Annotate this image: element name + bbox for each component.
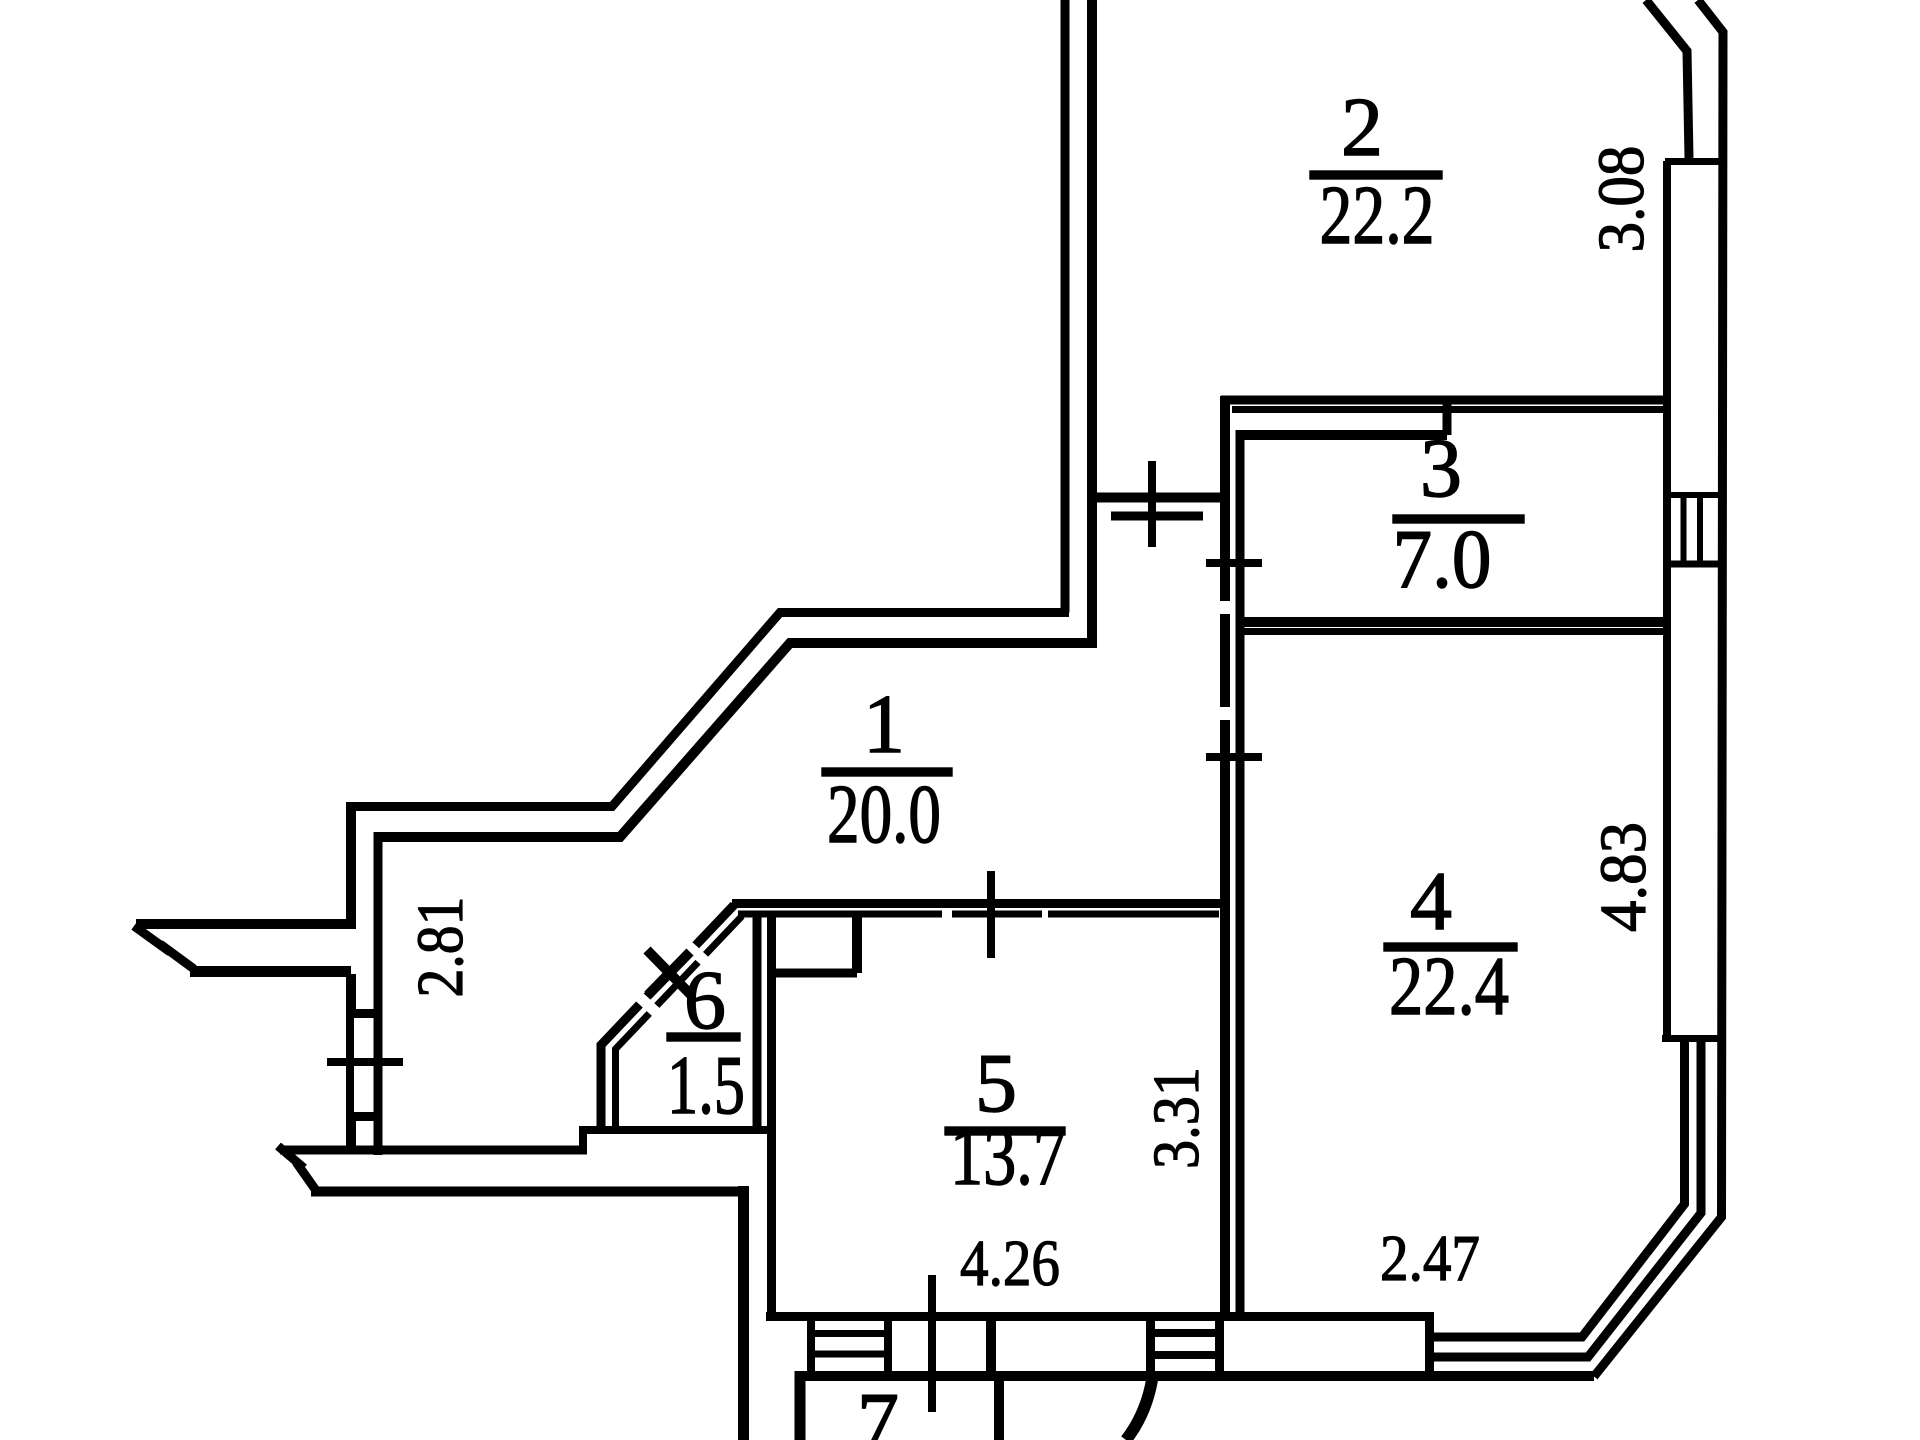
wall: room1/room5 dividing wall bottom line bbox=[738, 911, 1219, 918]
window: bay east glass line bbox=[1663, 161, 1671, 1038]
wall: stub wall top line with break bbox=[136, 919, 351, 929]
wall: left wall outer line between stub and window bbox=[346, 974, 356, 1013]
wall: room3 top wall step vertical bbox=[1443, 404, 1452, 435]
wall: room5 west outer line bbox=[738, 1186, 749, 1440]
wall: bottom band step vertical at east end bbox=[1425, 1312, 1434, 1381]
window: bottom ladder 2 east line bbox=[1215, 1317, 1224, 1377]
wall: room7 west wall bbox=[795, 1371, 806, 1440]
wall: room6 west wall and diagonal inner line bbox=[616, 916, 743, 1126]
wall: bay lower pier west line then diagonal to south wall glass line 1 bbox=[1434, 1038, 1685, 1337]
svg-text:2.81: 2.81 bbox=[404, 897, 477, 998]
wall: rooms divider east line bbox=[1236, 430, 1245, 1317]
window: left window bottom sill bbox=[346, 1112, 382, 1121]
small gap in room1/room5 wall bottom line left bbox=[942, 909, 952, 919]
window: bottom ladder 1 rung 1 bbox=[808, 1330, 891, 1337]
label room 5 fraction bar bbox=[945, 1127, 1065, 1135]
window: bottom ladder 1 west line bbox=[807, 1317, 815, 1377]
wall: corridor top wall lower line bbox=[1111, 512, 1203, 521]
label room 6 fraction bar bbox=[667, 1033, 740, 1041]
break mark on stub wall bbox=[134, 926, 194, 969]
wall: room2 bottom wall upper line bbox=[1221, 396, 1667, 405]
wall: left wall outer line lower segment bbox=[346, 1121, 356, 1150]
wall: bottom band bottom line bbox=[795, 1371, 1594, 1381]
svg-text:22.4: 22.4 bbox=[1389, 940, 1509, 1033]
glazing dash slit 2 on room6 diagonal bbox=[634, 992, 658, 1014]
wall: left wall inner line bbox=[374, 832, 383, 1155]
svg-text:2: 2 bbox=[1341, 81, 1383, 174]
door arc in room 7 bbox=[1126, 1380, 1152, 1440]
svg-text:3: 3 bbox=[1420, 422, 1462, 515]
wall: rooms divider west line bbox=[1220, 396, 1230, 1317]
window: bottom ladder 1 east line bbox=[884, 1317, 892, 1377]
svg-text:7: 7 bbox=[857, 1376, 899, 1440]
wall: bay top diagonal inner line bbox=[1646, 0, 1689, 158]
svg-text:13.7: 13.7 bbox=[950, 1110, 1066, 1203]
wall: bottom band door jamb bbox=[986, 1312, 996, 1381]
label room 4 fraction bar bbox=[1384, 943, 1517, 951]
window: bay top sill bbox=[1665, 158, 1722, 165]
svg-text:4.26: 4.26 bbox=[960, 1227, 1060, 1300]
window: bottom ladder 2 rung 1 bbox=[1150, 1329, 1220, 1337]
window: left window glass line bbox=[346, 1018, 354, 1112]
window: bay bottom sill bbox=[1662, 1035, 1720, 1042]
wall: room2 west wall inner line bbox=[1087, 0, 1097, 643]
dimension tick on left window bbox=[327, 1058, 403, 1066]
wall: room5 west inner line bbox=[767, 914, 776, 1317]
wall: corridor north and west boundary outer line bbox=[351, 613, 1069, 807]
window: bottom ladder 1 rung 2 bbox=[808, 1351, 891, 1358]
wall: corridor north and west boundary inner line bbox=[378, 643, 1097, 837]
window: left window top sill bbox=[346, 1009, 382, 1018]
label room 2 fraction bar bbox=[1310, 171, 1442, 179]
wall: room5 alcove step vertical bbox=[852, 914, 862, 973]
wall: room3 bottom wall lower line bbox=[1240, 628, 1667, 635]
window: bottom ladder 2 rung 2 bbox=[1150, 1351, 1220, 1359]
wall: room6 east wall west line bbox=[753, 914, 762, 1126]
svg-text:4.83: 4.83 bbox=[1587, 822, 1660, 932]
wall: room3 bottom wall upper line bbox=[1240, 617, 1667, 627]
wall: below band left jamb line bbox=[994, 1381, 1004, 1440]
wall: step below room6 bbox=[579, 1126, 587, 1154]
svg-text:4: 4 bbox=[1410, 855, 1452, 948]
svg-text:22.2: 22.2 bbox=[1320, 169, 1435, 262]
svg-text:7.0: 7.0 bbox=[1393, 513, 1492, 606]
wall: bay top diagonal outer line and east wall outer line bbox=[1594, 0, 1723, 1377]
wall: room6 west wall and diagonal outer line bbox=[601, 905, 734, 1130]
X mark on room6 diagonal bbox=[647, 950, 692, 996]
window: bay pier top line bbox=[1667, 492, 1723, 498]
label room 1 fraction bar bbox=[822, 768, 952, 776]
door gap in divider wall upper bbox=[1217, 601, 1230, 614]
dimension tick on divider wall upper bbox=[1206, 559, 1262, 567]
wall: room3 top wall bbox=[1236, 430, 1447, 440]
window: bay pier mullion 2 bbox=[1697, 495, 1703, 564]
wall: lower long bottom line bbox=[311, 1187, 748, 1197]
wall: room2 west wall outer line bbox=[1061, 0, 1070, 613]
glazing dash slit 1 on room6 diagonal bbox=[683, 941, 707, 963]
door gap in divider wall lower bbox=[1217, 707, 1230, 720]
dimension tick on corridor top wall bbox=[1148, 461, 1156, 547]
wall: lower cap line from break to room6 step bbox=[280, 1146, 587, 1155]
wall: stub wall bottom line bbox=[190, 966, 351, 977]
svg-text:1: 1 bbox=[863, 678, 905, 771]
svg-text:1.5: 1.5 bbox=[667, 1039, 745, 1132]
wall: corridor top wall upper line bbox=[1093, 493, 1225, 503]
window: bottom ladder 2 west line bbox=[1146, 1317, 1155, 1377]
small gap in room1/room5 wall bottom line right bbox=[1042, 909, 1048, 919]
svg-text:3.08: 3.08 bbox=[1585, 146, 1658, 253]
window: bay pier mullion 1 bbox=[1681, 495, 1687, 564]
wall: room2 bottom wall lower line bbox=[1232, 406, 1667, 413]
svg-text:2.47: 2.47 bbox=[1380, 1222, 1480, 1295]
window: bay pier bottom line bbox=[1667, 561, 1723, 568]
wall: left wall outer line upper segment bbox=[346, 802, 356, 929]
break mark on lower stub bbox=[278, 1146, 315, 1189]
wall: bay lower pier east line then diagonal to south wall glass line 2 bbox=[1434, 1038, 1701, 1357]
wall: room1/room5 dividing wall top line bbox=[732, 899, 1221, 908]
dimension tick on room1/room5 wall bbox=[987, 871, 995, 958]
svg-text:20.0: 20.0 bbox=[827, 768, 941, 861]
dimension tick on bottom band bbox=[928, 1275, 936, 1412]
wall: room5 alcove top line bbox=[768, 969, 857, 978]
label room 3 fraction bar bbox=[1393, 515, 1524, 523]
svg-text:3.31: 3.31 bbox=[1140, 1067, 1213, 1169]
dimension tick on divider wall lower bbox=[1206, 753, 1262, 761]
wall: room6 bottom wall bbox=[579, 1126, 776, 1134]
wall: bottom band top line bbox=[766, 1312, 1429, 1321]
